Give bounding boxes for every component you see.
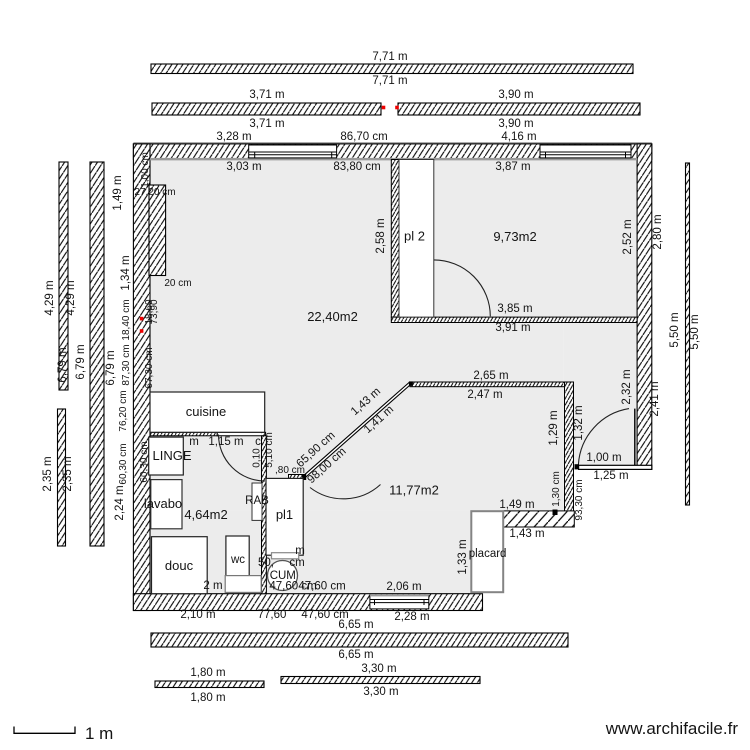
svg-text:86,70 cm: 86,70 cm [340,131,387,143]
svg-text:3,30 m: 3,30 m [363,686,398,698]
svg-text:2,32 m: 2,32 m [621,369,633,404]
left wall [133,144,150,611]
svg-text:47,60 cm: 47,60 cm [298,581,345,593]
door arc 98,00 [310,485,381,499]
door arc 1,00 + leaf [578,409,629,465]
svg-text:6,79 m: 6,79 m [57,347,69,382]
cuisine wall door opening [217,432,261,437]
door arc 1,15 [219,435,266,482]
svg-text:cuisine: cuisine [186,404,226,419]
svg-text:60,30 cm: 60,30 cm [139,441,150,482]
svg-text:93,30 cm: 93,30 cm [574,479,585,520]
svg-text:1,15 m: 1,15 m [208,436,243,448]
svg-text:3,71 m: 3,71 m [249,118,284,130]
svg-text:5,10 cm: 5,10 cm [264,432,275,468]
svg-text:22,40m2: 22,40m2 [307,309,358,324]
wall 2,65 [410,382,574,387]
svg-text:1,30 cm: 1,30 cm [551,471,562,507]
wall bath/pl1 vertical [262,436,267,594]
svg-text:73,90: 73,90 [149,299,160,324]
svg-text:76,20 cm: 76,20 cm [118,390,129,431]
svg-text:3,91 m: 3,91 m [495,322,530,334]
svg-text:2,24 m: 2,24 m [114,485,126,520]
svg-text:douc: douc [165,558,194,573]
svg-text:9,73m2: 9,73m2 [493,229,536,244]
svg-text:6,65 m: 6,65 m [338,649,373,661]
svg-text:6,79 m: 6,79 m [105,350,117,385]
svg-text:20 cm: 20 cm [164,278,191,289]
bottom bar 3,30 [281,677,480,684]
svg-text:3,87 m: 3,87 m [495,161,530,173]
inner right wall [565,382,574,527]
svg-text:2,10 m: 2,10 m [180,609,215,621]
svg-text:18,40 cm: 18,40 cm [121,299,132,340]
svg-text:cm: cm [289,557,304,569]
svg-text:1,00 cm: 1,00 cm [140,152,151,188]
svg-text:60,30 cm: 60,30 cm [118,443,129,484]
svg-text:lavabo: lavabo [144,496,182,511]
svg-text:placard: placard [469,548,507,560]
svg-text:67,30 cm: 67,30 cm [144,347,155,388]
door arc pl2 [434,260,491,317]
placard box [471,511,503,592]
left bar 6,79 [90,162,104,546]
svg-text:83,80 cm: 83,80 cm [333,161,380,173]
svg-text:1,25 m: 1,25 m [593,470,628,482]
scale ruler 1 m [14,727,75,734]
svg-text:3,90 m: 3,90 m [498,118,533,130]
left wall pilaster [149,185,166,276]
LINGE box [149,437,184,475]
douc box [152,537,208,594]
wall cap 1,25 [579,465,652,469]
svg-text:4,29 m: 4,29 m [65,280,77,315]
svg-text:2,58 m: 2,58 m [375,218,387,253]
svg-text:4,64m2: 4,64m2 [184,507,227,522]
window 2,06 bottom [370,594,429,609]
svg-text:6,65 m: 6,65 m [338,619,373,631]
svg-text:50,: 50, [258,557,274,569]
wc box [226,536,249,576]
pl1 box [266,478,303,555]
svg-text:1,49 m: 1,49 m [499,499,534,511]
left bar 4,29 [59,162,68,390]
svg-text:1,00 m: 1,00 m [586,452,621,464]
svg-text:77,60: 77,60 [258,609,287,621]
pl1 foot [272,553,299,559]
cuisine box [150,392,265,432]
dimension bar 3,90 [398,103,640,115]
red joint dots [382,106,386,110]
svg-text:2,52 m: 2,52 m [622,219,634,254]
svg-text:1,29 m: 1,29 m [548,410,560,445]
svg-text:0,10: 0,10 [252,448,263,468]
lavabo box [151,480,182,529]
svg-text:1,80 m: 1,80 m [190,692,225,704]
svg-text:6,79 m: 6,79 m [75,344,87,379]
svg-text:1,43 m: 1,43 m [509,528,544,540]
svg-text:pl1: pl1 [276,507,293,522]
svg-text:1,32 m: 1,32 m [573,405,585,440]
svg-text:wc: wc [230,554,245,566]
wall 1,49/1,43 [503,511,574,527]
svg-text:1 m: 1 m [85,724,113,743]
svg-text:LINGE: LINGE [152,448,191,463]
interior floor [150,160,637,594]
left bar 2,35 [58,409,66,546]
svg-text:3,30 m: 3,30 m [361,663,396,675]
svg-text:7,71 m: 7,71 m [372,51,407,63]
RAB box [252,483,262,520]
svg-text:2,06 m: 2,06 m [386,581,421,593]
svg-text:2,47 m: 2,47 m [467,389,502,401]
top wall exterior gray face [133,142,651,144]
small wall at diagonal foot [289,475,303,481]
svg-text:4,29 m: 4,29 m [44,280,56,315]
right bar 5,50 [686,163,690,505]
gray sill line along top wall interior [150,158,637,160]
svg-text:3,03 m: 3,03 m [226,161,261,173]
svg-text:5,50 m: 5,50 m [669,312,681,347]
svg-text:www.archifacile.fr: www.archifacile.fr [605,719,739,738]
svg-text:c: c [255,436,261,448]
window 4,16 top [540,145,631,158]
svg-text:1,80 m: 1,80 m [190,667,225,679]
red marks on left wall [140,317,144,321]
svg-text:2,80 m: 2,80 m [652,214,664,249]
window 86,70 top [249,145,337,158]
svg-text:1,33 m: 1,33 m [457,539,469,574]
svg-text:m: m [189,436,199,448]
cuisine wall [150,432,266,436]
svg-text:5,50 m: 5,50 m [689,314,701,349]
svg-text:11,77m2: 11,77m2 [389,483,439,498]
svg-text:2,41 m: 2,41 m [649,381,661,416]
svg-text:3,28 m: 3,28 m [216,131,251,143]
svg-text:7,71 m: 7,71 m [372,75,407,87]
svg-text:m: m [295,545,305,557]
bottom bar 6,65 [151,633,568,647]
svg-text:3,85 m: 3,85 m [497,303,532,315]
svg-text:2,35 m: 2,35 m [42,456,54,491]
svg-text:3,71 m: 3,71 m [249,89,284,101]
svg-text:2,65 m: 2,65 m [473,370,508,382]
svg-text:3,90 m: 3,90 m [498,89,533,101]
svg-text:4,16 m: 4,16 m [501,131,536,143]
CUM circle [268,561,298,591]
svg-text:1,34 m: 1,34 m [120,255,132,290]
svg-text:RAB: RAB [245,495,269,507]
pl2 partition wall [391,160,399,318]
wall 3,91 under pl2 room [391,317,637,322]
bottom wall [133,594,482,611]
svg-text:1,49 m: 1,49 m [112,175,124,210]
svg-text:87,30 cm: 87,30 cm [121,344,132,385]
wc base box [225,576,261,593]
diagonal wall [302,381,413,480]
dimension bar 3,71 [152,103,381,115]
top wall [133,144,651,160]
svg-text:2,35 m: 2,35 m [62,456,74,491]
svg-text:2,28 m: 2,28 m [394,611,429,623]
dimension bar 7,71 top [151,64,633,74]
bottom bar 1,80 [155,681,264,688]
svg-text:2 m: 2 m [203,580,222,592]
svg-text:pl 2: pl 2 [404,229,425,244]
right wall [637,144,652,469]
pl2 closet box [399,160,434,318]
